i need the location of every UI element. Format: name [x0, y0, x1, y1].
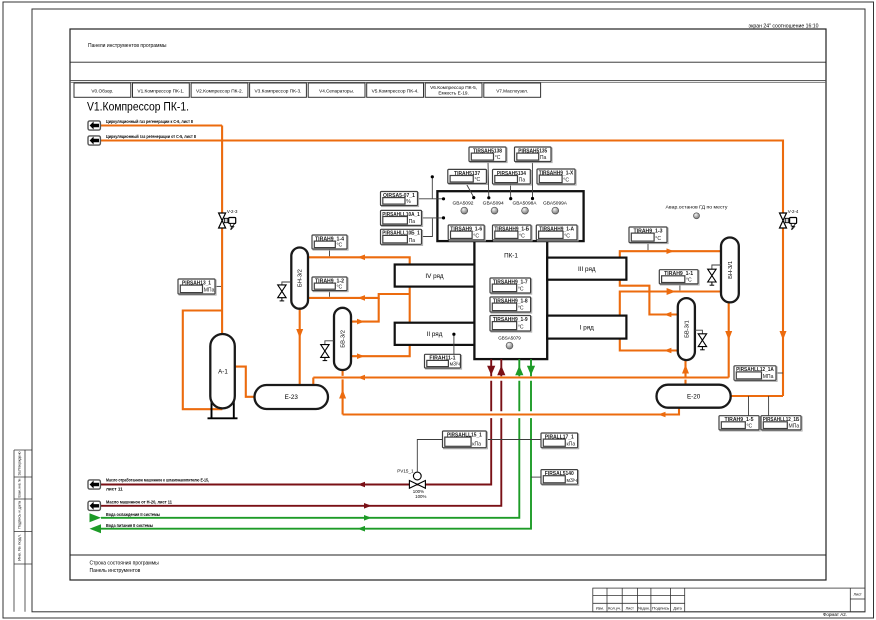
signal wire PIRSAH5135: [531, 162, 533, 199]
wire circulation gas from C-5 to valve V-2-4: [100, 141, 783, 214]
title block: [593, 588, 865, 612]
signal wire FIRAH11-1: [453, 334, 455, 354]
stream labels bottom: [106, 477, 209, 529]
instrument PIRSAH5135: [515, 147, 553, 163]
svg-text:Емкость Е-19.: Емкость Е-19.: [438, 91, 469, 96]
arrow water supply right: [364, 515, 372, 521]
svg-text:кПа: кПа: [566, 441, 575, 447]
svg-text:Панель инструментов: Панель инструментов: [90, 568, 141, 574]
drum E-20: [657, 385, 731, 408]
svg-text:V7.Маслоузел.: V7.Маслоузел.: [496, 88, 528, 93]
node dot PIRSAH5134: [509, 197, 512, 200]
arrow into BN-3/1 lower: [667, 288, 676, 295]
arrow BN-3/2 down to E-23: [296, 329, 303, 338]
row I box: [547, 316, 626, 339]
svg-text:Панели инструментов программы: Панели инструментов программы: [88, 43, 167, 49]
arrow up into BV-3/1: [682, 365, 689, 374]
svg-text:V6.Компрессор ПК-5,: V6.Компрессор ПК-5,: [430, 85, 477, 90]
instrument TIRSAH5138: [469, 147, 507, 163]
svg-text:°C: °C: [563, 178, 569, 184]
svg-text:V1.Компрессор ПК-1.: V1.Компрессор ПК-1.: [137, 88, 184, 93]
wire BV-3/2 lower outlet to II row bottom: [351, 345, 409, 356]
left stamp labels: [18, 452, 22, 562]
valve V-2-4: [780, 209, 799, 230]
wire III row top to BN-3/1 upper inlet: [620, 251, 721, 257]
svg-text:Лист: Лист: [626, 607, 635, 611]
wire bypass loop to A-1 bottom: [183, 311, 223, 410]
screen border: [70, 29, 826, 580]
valve at BV-3/2: [321, 341, 334, 361]
off-page connector gas from C-5: [88, 136, 100, 145]
signal wire PIRSAHLL12_1A: [776, 372, 783, 374]
svg-text:°C: °C: [518, 287, 524, 293]
valve at BN-3/1: [708, 265, 721, 285]
wire header stub to E-20 top: [684, 380, 686, 385]
svg-text:III ряд: III ряд: [578, 266, 596, 273]
svg-text:Дата: Дата: [673, 607, 682, 611]
wire oil supply to PK-1: [100, 359, 501, 506]
instrument TIRAH9_1-4: [312, 235, 348, 250]
svg-text:°C: °C: [518, 325, 524, 331]
svg-text:м3/ч: м3/ч: [566, 478, 577, 484]
wire water return: [101, 359, 531, 529]
wire BN-3/2 upper to IV row top: [308, 257, 410, 264]
svg-text:Авар.останов ГД по месту: Авар.останов ГД по месту: [666, 205, 729, 210]
vessel A-1 supports: [208, 396, 238, 418]
svg-text:Подпись и дата: Подпись и дата: [18, 501, 22, 529]
svg-text:Циркуляционный газ регенерации: Циркуляционный газ регенерации к С-6, ли…: [106, 118, 193, 124]
svg-text:Е-20: Е-20: [687, 393, 701, 400]
instrument TIRSAH9_1-6: [448, 225, 485, 241]
svg-text:Изм.: Изм.: [596, 607, 604, 611]
instrument TIRSAHH9_1-9: [490, 316, 532, 333]
svg-text:Лист: Лист: [853, 592, 862, 596]
svg-text:Подпись: Подпись: [652, 607, 669, 611]
svg-text:V-2-4: V-2-4: [788, 209, 799, 214]
arrow into BN-3/2 upper: [358, 255, 366, 261]
valve V-2-3: [219, 209, 238, 230]
svg-text:°C: °C: [473, 234, 479, 240]
svg-text:°C: °C: [337, 243, 343, 249]
arrow waste oil down: [487, 366, 495, 376]
svg-text:Формат А2.: Формат А2.: [823, 612, 847, 617]
signal wire PV15_1 controller: [417, 440, 442, 473]
svg-text:Па: Па: [409, 238, 416, 244]
wire E-20 bottom to BV-3/2 header: [343, 408, 679, 415]
instrument FIRSAL5140: [541, 470, 579, 486]
svg-text:м3/ч: м3/ч: [450, 362, 461, 368]
svg-text:V1.Компрессор ПК-1.: V1.Компрессор ПК-1.: [87, 100, 189, 114]
indicator ball GBA5098A: [522, 207, 529, 214]
control valve PV15_1: [397, 468, 426, 499]
svg-text:GBA5094: GBA5094: [483, 201, 505, 206]
svg-text:БВ-3/1: БВ-3/1: [684, 320, 690, 338]
svg-text:№док.: №док.: [638, 607, 650, 611]
svg-text:°C: °C: [518, 306, 524, 312]
tab 7: [484, 83, 541, 97]
wire valve V-2-3 to vessel A-1 top: [221, 228, 223, 334]
svg-text:V2.Компрессор ПК-2.: V2.Компрессор ПК-2.: [196, 88, 243, 93]
off-page connector oil from N-20: [88, 501, 100, 510]
tab 4: [308, 83, 365, 97]
wire BV-3/1 bottom drop: [684, 360, 686, 377]
indicator ball GBSA5079: [506, 342, 513, 349]
row II box: [395, 323, 475, 345]
svg-text:GBA5092: GBA5092: [453, 201, 475, 206]
indicator ball GBA5099A: [552, 207, 559, 214]
svg-text:Масло отработанное машинное к: Масло отработанное машинное к шламонакоп…: [106, 477, 209, 483]
instrument PIRSAHLL10Б_1: [381, 229, 423, 245]
svg-text:Е-23: Е-23: [285, 394, 299, 401]
instrument TIRSAHH9_1-7: [490, 278, 532, 294]
instrument PIRSAHLL12_1A: [734, 366, 777, 382]
wire branch to BN-3/2 lower inlet: [308, 294, 410, 298]
svg-text:Циркуляционный газ регенерации: Циркуляционный газ регенерации от С-5, л…: [106, 133, 196, 139]
svg-text:%: %: [406, 199, 411, 205]
compressor PK-1 top casing: [437, 191, 583, 241]
node dot PIRSAH5135: [531, 197, 534, 200]
svg-text:Па: Па: [409, 219, 416, 225]
instrument TIRAH9_1-3: [629, 227, 668, 244]
arrow E-20 bottom left: [658, 412, 666, 418]
indicator ball emergency stop: [694, 213, 700, 219]
svg-text:Вода питания II системы: Вода питания II системы: [106, 523, 153, 528]
wire I row top to BN-3/1 lower inlet: [620, 292, 721, 316]
tab 1: [133, 83, 190, 97]
svg-text:ПК-1: ПК-1: [504, 253, 518, 260]
signal wire TIRAH9_1-3: [647, 243, 649, 251]
svg-text:МПа: МПа: [204, 288, 215, 294]
signal wire PIRSAHLL10B_1: [422, 219, 433, 237]
wire BN-3/2 bottom to E-23 top: [299, 309, 301, 386]
arrow waste oil left: [358, 482, 366, 488]
status bar separator: [70, 554, 826, 556]
wire BV-3/1 lower to I row bottom: [620, 339, 678, 351]
arrow from BV-3/2 upper: [357, 319, 365, 325]
instrument TIRSAHH9_1-X: [537, 169, 576, 185]
node dot TIRSAH5138: [487, 196, 490, 199]
instrument TIRAH9_1-5: [719, 416, 760, 431]
signal wire TIRSAH5138: [487, 162, 490, 198]
wire BV-3/2 bottom drop: [342, 370, 344, 415]
svg-text:V4.Сепараторы.: V4.Сепараторы.: [319, 88, 354, 93]
svg-text:GBA5099A: GBA5099A: [543, 201, 567, 206]
cooler BN-3/1: [721, 238, 739, 303]
vessel A-1: [210, 334, 235, 408]
signal wire PIRSAHLL10A_1: [422, 217, 443, 219]
svg-text:V3.Компрессор ПК-3.: V3.Компрессор ПК-3.: [255, 88, 302, 93]
instrument TIRSAHH9_1-A: [536, 225, 578, 241]
svg-text:Взам. инв. №: Взам. инв. №: [18, 478, 22, 497]
tab 2: [191, 83, 248, 97]
svg-text:°C: °C: [564, 234, 570, 240]
signal wire PIRSAH5134: [509, 184, 511, 198]
wire long header line: [313, 376, 728, 378]
svg-text:кПа: кПа: [472, 441, 481, 447]
toolbar separator: [70, 61, 826, 63]
tab 3: [250, 83, 307, 97]
instrument FIRAH11-1: [425, 354, 462, 369]
instrument PIRALL17_1: [541, 433, 579, 449]
svg-text:V5.Компрессор ПК-4.: V5.Компрессор ПК-4.: [372, 88, 419, 93]
svg-text:V-2-3: V-2-3: [227, 209, 238, 214]
instrument PIRSAH5134: [493, 169, 532, 185]
node dot FIRAH11-1: [452, 333, 455, 336]
instrument PIRSAHLL15_1: [443, 431, 488, 449]
arrow oil supply right: [364, 503, 372, 509]
compressor PK-1 body: [474, 241, 547, 359]
drum E-23: [255, 385, 329, 409]
instrument TIRAH9_1-1: [659, 270, 699, 285]
arrow water supply up: [515, 366, 523, 376]
wire BV-3/2 upper outlet riser: [351, 298, 378, 322]
title block labels: [596, 592, 862, 610]
svg-text:V0.Обзор.: V0.Обзор.: [91, 88, 113, 93]
instrument TIRSAHH9_1-8: [490, 297, 532, 313]
row III box: [547, 258, 626, 280]
signal wire TIRAH9_1-5: [748, 396, 750, 416]
signal wire PIRSAH13_1: [215, 285, 221, 287]
svg-text:ЗаУтверждено: ЗаУтверждено: [18, 452, 22, 476]
arrow BN-3/1 down: [725, 331, 732, 340]
svg-text:°C: °C: [519, 234, 525, 240]
tab 0: [74, 83, 131, 97]
instrument PIRSAHLL12_1Б: [761, 416, 802, 431]
signal wire TIRAH9_1-1: [679, 284, 681, 290]
arrow BV-3/1 to III row: [664, 312, 672, 318]
signal wire FIRSAL5140: [531, 476, 541, 478]
svg-text:GBA5098A: GBA5098A: [513, 201, 537, 206]
wire circulation gas to C-6: [100, 124, 222, 126]
svg-text:лист 11: лист 11: [106, 487, 123, 492]
svg-text:БН-3/1: БН-3/1: [728, 261, 734, 279]
arrow into BN-3/1 upper: [667, 248, 675, 254]
svg-text:Инв. № подл.: Инв. № подл.: [18, 534, 22, 561]
instrument QIRSA5-07_1: [381, 192, 419, 207]
cooler BN-3/2: [291, 248, 308, 309]
svg-text:БН-3/2: БН-3/2: [298, 269, 304, 287]
arrow into BN-3/2 lower: [358, 295, 366, 301]
svg-text:Вода охлаждения II системы: Вода охлаждения II системы: [106, 512, 160, 517]
signal wire PIRALL17_1: [486, 439, 541, 441]
signal wire TIRAH9_1-2: [329, 291, 331, 297]
indicator ball GBA5094: [491, 207, 498, 214]
svg-text:Кол.уч.: Кол.уч.: [608, 607, 621, 611]
svg-text:I ряд: I ряд: [580, 324, 594, 331]
off-page connector gas to C-6: [88, 121, 100, 130]
svg-text:100%: 100%: [415, 494, 426, 499]
arrow V-2-4 line down: [780, 331, 787, 340]
svg-text:°C: °C: [474, 177, 480, 183]
svg-text:МПа: МПа: [763, 374, 774, 380]
left stamp column grid: [14, 450, 32, 612]
node stub dot: [431, 175, 434, 178]
svg-text:Строка состояния программы: Строка состояния программы: [90, 561, 160, 567]
wire riser to valve V-2-3: [221, 126, 223, 214]
indicator ball GBA5092: [461, 207, 468, 214]
wire valve V-2-4 down to E-20 line: [782, 228, 784, 396]
svg-text:°C: °C: [747, 424, 753, 430]
stream labels top: [106, 118, 196, 139]
signal wire TIRAH9_1-4: [329, 249, 331, 256]
svg-text:°C: °C: [655, 236, 661, 242]
signal wire TIRAH5137: [466, 184, 474, 198]
svg-text:МПа: МПа: [789, 424, 800, 430]
valve at BN-3/2: [278, 282, 292, 301]
arrow up into BV-3/2: [339, 390, 346, 399]
row IV box: [395, 265, 475, 287]
svg-text:Масло машинное от Н-20, лист 1: Масло машинное от Н-20, лист 11: [106, 500, 172, 505]
svg-text:°C: °C: [686, 278, 692, 284]
separator BV-3/2: [334, 308, 351, 370]
valve at BV-3/1: [695, 330, 707, 350]
wire A-1 to E-23: [235, 367, 255, 397]
separator BV-3/1: [678, 298, 695, 360]
wire header drop to E-23 top: [312, 378, 314, 386]
instrument TIRAH5137: [448, 169, 488, 184]
node dot TIRAH5137: [472, 196, 475, 199]
svg-text:°C: °C: [495, 155, 501, 161]
svg-text:БВ-3/2: БВ-3/2: [341, 330, 347, 348]
node dot 1: [442, 197, 445, 200]
wire cooling water supply: [101, 359, 519, 518]
off-page connector waste oil to E-15: [88, 480, 100, 489]
wire IV row bottom to II row top: [409, 287, 411, 323]
signal stub node: [431, 178, 433, 199]
svg-text:II ряд: II ряд: [427, 331, 443, 338]
instrument PIRSAHLL10A_1: [381, 210, 423, 226]
double line above tabs: [70, 79, 826, 81]
svg-text:А-1: А-1: [218, 369, 228, 376]
tab 6: [425, 83, 482, 97]
signal wire QIRSA5-07_1: [418, 198, 443, 200]
signal wire PIRSAHLL12_1B: [768, 396, 770, 416]
svg-text:IV ряд: IV ряд: [425, 273, 444, 280]
instrument TIRSAHH9_1-Б: [493, 225, 533, 241]
arrow water return down: [527, 366, 535, 376]
wire E-20 right header: [731, 395, 783, 397]
arrow from BV-3/2 lower: [357, 353, 365, 359]
svg-text:Па: Па: [519, 178, 526, 184]
arrow header to E-23: [358, 375, 366, 381]
instrument TIRAH9_1-2: [312, 277, 348, 292]
instrument PIRSAH13_1: [178, 279, 216, 295]
wire BV-3/1 upper to III row bottom: [620, 280, 678, 315]
stream start arrow water supply: [90, 513, 102, 522]
svg-text:Па: Па: [540, 155, 547, 161]
arrow water return left: [358, 526, 366, 532]
stream start arrow water return: [90, 524, 102, 533]
tab 5: [367, 83, 424, 97]
arrow BV-3/1 to I row: [664, 348, 672, 354]
node dot 2: [442, 216, 445, 219]
svg-text:°C: °C: [337, 284, 343, 290]
wire waste oil out of PK-1: [100, 359, 491, 484]
wire BN-3/1 bottom drop: [728, 302, 730, 377]
svg-text:GBSA5079: GBSA5079: [498, 335, 521, 340]
svg-text:PV15_1: PV15_1: [397, 468, 414, 473]
arrow oil supply up: [497, 366, 505, 376]
